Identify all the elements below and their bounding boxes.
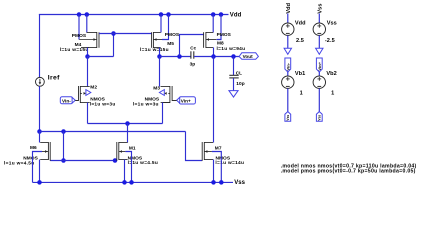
wire Vss source to arrow [318, 35, 320, 48]
svg-text:l=1u w=94u: l=1u w=94u [217, 46, 246, 52]
svg-text:Vin-: Vin- [62, 99, 71, 104]
wire Vss label to source [318, 13, 320, 23]
node Vss pin label under Vb2 [316, 112, 322, 122]
wire Vss rail [33, 181, 234, 183]
voltage source Vdd [282, 21, 307, 45]
wire M2 source to tail [87, 103, 89, 124]
wire out1 to M8 gate [180, 35, 204, 57]
transistor M5 [140, 32, 180, 53]
wire Vb1 to Vss pin [287, 88, 289, 111]
svg-text:Vb2: Vb2 [326, 71, 336, 77]
transistor M7 [202, 142, 244, 166]
node mirror bus riser junction [61, 129, 66, 134]
wire out1 to Cc [160, 56, 192, 58]
wire rail corner down to Iref [39, 14, 41, 77]
transistor M1 [117, 142, 158, 166]
wire M6-M1 gate wire [50, 160, 117, 162]
wire Vin+ pin to Vb2 [318, 72, 320, 76]
svg-text:.model pmos pmos(vt0=-0.7 kp=5: .model pmos pmos(vt0=-0.7 kp=50u lambda=… [281, 169, 416, 175]
label spice model nmos [281, 164, 417, 170]
svg-text:PMOS: PMOS [165, 32, 180, 38]
node gate bus junction [111, 31, 116, 36]
wire Vdd to M4 bulk [78, 15, 80, 40]
svg-text:M8: M8 [217, 41, 224, 47]
svg-text:Vdd: Vdd [295, 21, 306, 27]
transistor M4 [60, 32, 99, 53]
wire M7 source to Vss [213, 160, 215, 183]
svg-text:NMOS: NMOS [145, 96, 160, 102]
node Vin- pin label rotated [285, 58, 291, 72]
wire Iref to mirror bus [39, 86, 41, 131]
capacitor Cc [190, 45, 197, 67]
wire Vdd to M8 source [212, 15, 214, 33]
wire Vb2 to Vss pin [318, 88, 320, 111]
svg-text:Iref: Iref [48, 74, 60, 81]
wire M4-M5 gate bus [99, 33, 152, 35]
transistor M2 [79, 85, 116, 108]
svg-text:-2.5: -2.5 [325, 38, 335, 44]
wire M5 drain down [159, 48, 161, 57]
voltage source Vb1 [282, 71, 306, 96]
svg-text:Vout: Vout [243, 54, 253, 59]
wire Vin- pin to Vb1 [287, 72, 289, 76]
node Iref bus junction [37, 129, 42, 134]
svg-text:l=1u w=3u: l=1u w=3u [90, 102, 116, 108]
node CL junction [231, 54, 236, 59]
wire Vdd to M5 source [160, 15, 162, 33]
junction dots on Vss rail [37, 180, 223, 185]
svg-text:1: 1 [300, 91, 303, 97]
wire out1 to M3 drain [159, 57, 161, 87]
svg-text:2.5: 2.5 [296, 38, 304, 44]
svg-text:l=1u w=3u: l=1u w=3u [133, 102, 159, 108]
node Vss rail label [234, 180, 245, 186]
svg-text:3p: 3p [190, 61, 196, 67]
svg-text:M5: M5 [167, 41, 174, 47]
wire Vin+ to M3 gate [172, 100, 177, 102]
svg-text:M7: M7 [215, 146, 222, 152]
wire M6 bulk to Vss [33, 152, 43, 183]
svg-text:Vin-: Vin- [285, 62, 290, 70]
wire out to M7 drain [213, 57, 215, 143]
svg-text:l=1u w=15u: l=1u w=15u [60, 47, 89, 53]
transistor M3 [133, 85, 172, 107]
wire Cc to out [194, 56, 239, 58]
wire Vdd label to source [287, 13, 289, 23]
input label Vin+ [177, 97, 196, 104]
svg-text:l=1u w=4.5u: l=1u w=4.5u [128, 160, 159, 166]
svg-text:Vss: Vss [234, 180, 245, 186]
svg-text:CL: CL [236, 71, 242, 76]
wire Vdd to M5 bulk [162, 15, 169, 40]
wire Vdd to M8 bulk [217, 15, 221, 40]
wire M4 diode link [88, 56, 114, 58]
capacitor CL [229, 71, 242, 78]
svg-text:Vdd: Vdd [286, 2, 292, 13]
svg-text:l=1u w=14u: l=1u w=14u [215, 160, 244, 166]
label CL value [236, 81, 244, 87]
wire Vdd source to arrow [287, 35, 289, 48]
wire M1 bulk to Vss [125, 152, 131, 183]
svg-text:M4: M4 [75, 42, 82, 48]
node out1 riser junction [177, 54, 182, 59]
wire tail [88, 123, 163, 125]
node gate wire junction [61, 158, 66, 163]
ground arrow under CL [229, 91, 238, 98]
voltage source Vb2 [313, 71, 337, 96]
svg-text:Vin+: Vin+ [181, 99, 191, 104]
wire Vin- to M2 gate [75, 100, 78, 102]
svg-text:Vss: Vss [286, 115, 290, 121]
input label Vin- [60, 97, 75, 104]
label spice model pmos [281, 169, 416, 175]
svg-text:PMOS: PMOS [217, 32, 232, 38]
transistor M8 [204, 32, 246, 52]
wire Vdd rail [39, 14, 229, 16]
svg-text:PMOS: PMOS [72, 33, 87, 39]
svg-text:M3: M3 [153, 85, 160, 91]
node out junction [211, 54, 216, 59]
bulk marker M3 [159, 90, 164, 96]
node M1 gate junction [113, 158, 118, 163]
svg-text:Vss: Vss [327, 21, 337, 27]
svg-text:l=1u w=15u: l=1u w=15u [140, 47, 169, 53]
node M4 drain junction [85, 54, 90, 59]
junction dots on Vdd rail [77, 12, 224, 17]
transistor M6 [4, 142, 50, 166]
wire Vdd to M4 source [86, 15, 88, 33]
svg-text:l=1u w=4.5u: l=1u w=4.5u [4, 160, 35, 166]
svg-text:1: 1 [331, 91, 334, 97]
wire CL to ground [233, 78, 235, 90]
voltage source Vss [313, 21, 337, 45]
wire M8 drain down [213, 48, 215, 57]
svg-text:NMOS: NMOS [90, 96, 105, 102]
node Vss pin label under Vb1 [285, 112, 291, 122]
wire mirror bus [40, 131, 186, 133]
svg-text:Vin+: Vin+ [317, 61, 322, 70]
node Vout label [239, 53, 258, 59]
wire out to CL [233, 57, 235, 76]
svg-text:Vss: Vss [318, 115, 322, 121]
svg-text:M1: M1 [129, 146, 136, 152]
wire M6 source to Vss [39, 160, 41, 183]
svg-text:Vdd: Vdd [230, 13, 242, 19]
node Vin+ pin label rotated [316, 58, 322, 72]
svg-text:Vb1: Vb1 [295, 71, 305, 77]
svg-text:M6: M6 [30, 145, 37, 151]
svg-text:Vss: Vss [318, 3, 324, 13]
wire bus to M6 drain [39, 132, 41, 143]
node Vdd rail label [230, 13, 242, 19]
ground arrow under Vss [316, 48, 323, 54]
wire M1 source to Vss [124, 160, 126, 183]
node Vdd net label rotated [286, 2, 292, 13]
wire M4 drain to M2 drain [87, 57, 89, 87]
wire bus to M7 gate [186, 132, 203, 161]
svg-text:10p: 10p [236, 81, 244, 87]
node Vss net label rotated [318, 3, 324, 13]
wire M7 bulk to Vss [212, 152, 221, 183]
bulk marker M2 [86, 90, 91, 96]
node tail junction [125, 121, 130, 126]
current source Iref [36, 74, 61, 86]
ground arrow under Vdd [284, 48, 291, 54]
wire bus riser to gate wire [63, 132, 65, 161]
svg-text:M2: M2 [90, 85, 97, 91]
wire diode link riser [113, 34, 115, 57]
node out1 junction [157, 54, 162, 59]
svg-text:Cc: Cc [190, 45, 196, 50]
wire tail to M1 drain [127, 124, 129, 143]
wire M4 drain down [87, 48, 89, 57]
wire M3 source to tail [162, 103, 164, 124]
